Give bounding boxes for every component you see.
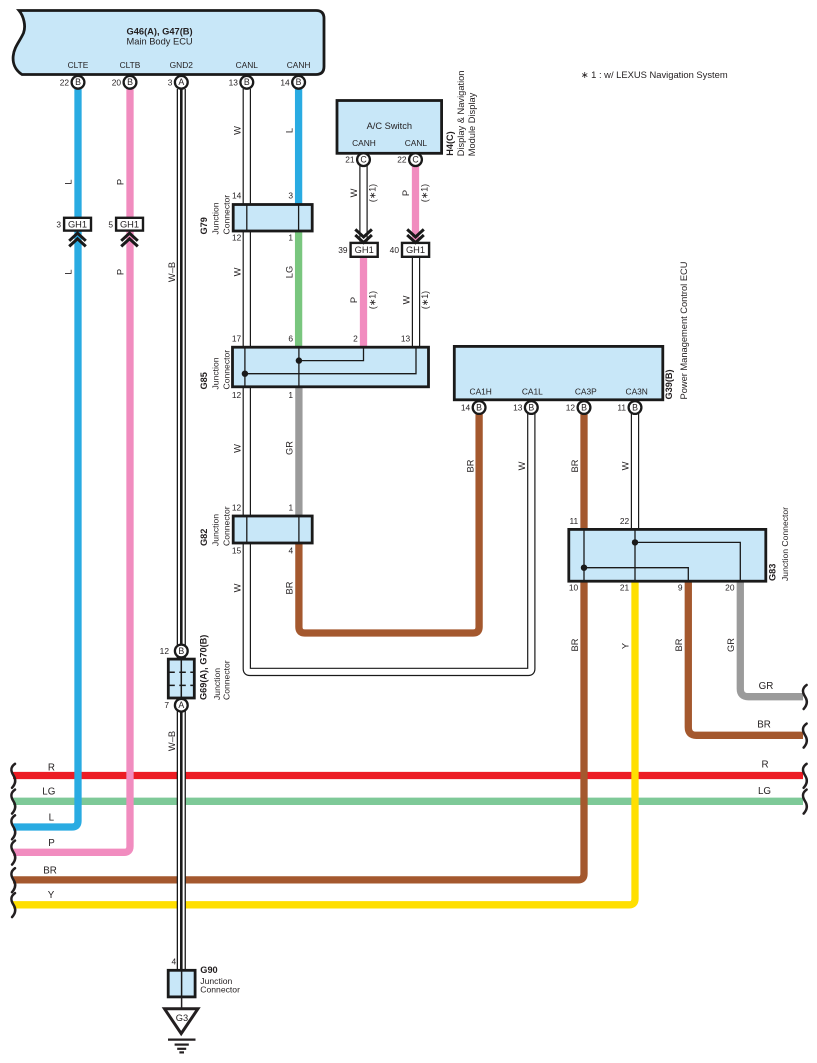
wire bus R (red) [13,772,803,779]
pin 21 C of A/C Switch (CANH) [357,153,370,166]
junction connector G85 box [233,347,429,387]
svg-text:LG: LG [42,787,55,798]
svg-text:CA3N: CA3N [626,387,648,397]
svg-text:BR: BR [757,720,771,731]
svg-text:G85: G85 [199,372,209,389]
svg-text:Connector: Connector [221,195,231,235]
svg-text:6: 6 [288,334,293,344]
svg-text:(∗1): (∗1) [367,184,377,202]
svg-text:BR: BR [570,638,580,651]
svg-text:Y: Y [48,890,55,901]
arrow down into 39 GH1 [355,229,372,242]
svg-text:(∗1): (∗1) [419,184,429,202]
svg-text:GR: GR [726,638,736,652]
pin 12 B of G69/G70 [175,645,188,658]
break symbol left Y bus [11,893,15,917]
svg-text:A: A [178,77,184,87]
arrow down into 40 GH1 [407,229,424,242]
svg-text:GR: GR [759,681,774,692]
svg-text:11: 11 [569,516,578,526]
svg-text:GH1: GH1 [120,219,139,229]
break symbol left R bus [11,764,15,788]
svg-text:7: 7 [164,700,169,710]
svg-text:21: 21 [620,583,630,593]
svg-text:BR: BR [570,459,580,472]
break symbol right GR wire [803,685,807,709]
svg-text:1: 1 [288,233,293,243]
svg-text:C: C [360,155,367,165]
pin 22 B of Main Body ECU (CLTE) [72,76,85,89]
svg-text:W: W [233,267,243,276]
wire GR from G85 pin 1 to G82 pin 1 [295,387,302,516]
G85 internal link pin6-pin1 [298,347,300,387]
wire Y from G83 pin 21 to bus at left edge [13,581,635,905]
svg-text:W–B: W–B [167,731,177,751]
break symbol left LG bus [11,790,15,814]
svg-text:CANH: CANH [287,60,311,70]
svg-text:P: P [401,190,411,196]
svg-text:(∗1): (∗1) [420,291,430,309]
svg-text:5: 5 [108,219,113,229]
svg-text:R: R [761,760,768,771]
svg-text:W: W [233,583,243,592]
svg-text:2: 2 [353,334,358,344]
svg-text:17: 17 [232,334,242,344]
pin 13 B of G39 (CA1L) [525,401,538,414]
node dot G83 pin22 column [632,539,638,545]
junction connector G69(A),G70(B) box [168,659,194,698]
svg-text:G82: G82 [199,529,209,546]
svg-text:Junction: Junction [211,202,221,234]
svg-text:P: P [116,179,126,185]
pin 7 A of G69/G70 [175,699,188,712]
break symbol left BR bus [11,868,15,892]
wire L from 3 GH1 to bus at left edge [13,231,78,828]
svg-text:P: P [48,838,55,849]
G69/G70 internal divider vertical [180,659,182,698]
svg-text:Main Body ECU: Main Body ECU [127,37,193,47]
wire BR from G83 pin 10 to bus at left edge [13,581,584,880]
svg-text:22: 22 [620,516,630,526]
G79 internal link pin14-pin12 [246,205,248,232]
svg-text:P: P [349,297,359,303]
svg-text:CA1H: CA1H [470,387,492,397]
wire P from 5 GH1 to bus at left edge [13,231,130,853]
svg-text:B: B [632,402,638,412]
ground earth hatch lines [168,1038,196,1040]
svg-text:1: 1 [288,390,293,400]
svg-text:15: 15 [232,546,242,556]
svg-text:Power Management Control ECU: Power Management Control ECU [679,262,689,400]
svg-text:W–B: W–B [167,262,177,282]
G85 internal link pin13 to node [245,347,416,374]
svg-text:Junction Connector: Junction Connector [780,507,790,581]
svg-text:4: 4 [172,957,177,967]
svg-text:3: 3 [168,77,173,87]
G82 internal link pin12-pin15 [246,516,248,543]
ECU U2 A/C Switch H4(C) box [337,101,442,154]
wire P from A/C Switch CANL pin 22 to arrow above 40 GH1 [412,166,419,242]
svg-text:W: W [517,461,527,470]
svg-text:B: B [528,402,534,412]
svg-text:CANL: CANL [405,138,428,148]
svg-text:13: 13 [229,77,239,87]
svg-text:21: 21 [345,155,355,165]
junction connector G82 box [233,516,312,543]
wire BR from CA3P pin 12 to G83 pin 11 [580,414,587,529]
svg-text:12: 12 [232,233,242,243]
G90 internal divider [181,970,183,997]
svg-text:39: 39 [338,245,348,255]
svg-text:Y: Y [620,643,630,649]
pin 14 B of Main Body ECU (CANH) [292,76,305,89]
svg-text:BR: BR [43,865,57,876]
svg-text:P: P [116,269,126,275]
svg-text:GH1: GH1 [355,245,374,255]
svg-text:A/C Switch: A/C Switch [367,121,412,131]
svg-text:LG: LG [284,266,294,278]
wire P from CLTB pin 20 to connector 5 GH1 [126,89,133,218]
svg-text:12: 12 [232,390,242,400]
svg-text:R: R [48,762,55,773]
svg-text:G69(A), G70(B): G69(A), G70(B) [199,635,209,700]
pin 14 B of G39 (CA1H) [473,401,486,414]
ECU U3 Power Management Control ECU G39(B) box [454,346,663,399]
junction connector G90 box [168,970,195,997]
node dot G83 pin11 column [581,565,587,571]
wire W-B from GND2 pin 3 to G90 junction connector [177,89,186,970]
break symbol left P wire [11,841,15,865]
G82 internal link pin1-pin4 [298,516,300,543]
svg-text:12: 12 [160,646,170,656]
svg-text:G83: G83 [767,564,777,581]
svg-text:H4(C): H4(C) [445,131,455,156]
G79 internal link pin3-pin1 [298,205,300,232]
svg-text:BR: BR [674,638,684,651]
svg-text:L: L [49,812,55,823]
svg-text:22: 22 [60,77,70,87]
svg-text:B: B [296,77,302,87]
svg-text:Module Display: Module Display [467,92,477,156]
wire W from 40 GH1 to G85 pin 13 [412,257,420,347]
svg-text:B: B [127,77,133,87]
svg-text:W: W [402,295,412,304]
svg-text:Connector: Connector [221,350,231,390]
pin 13 B of Main Body ECU (CANL) [240,76,253,89]
junction connector G79 box [233,205,312,232]
svg-text:A: A [178,700,184,710]
wire LG from G79 pin 1 to G85 pin 6 [295,231,302,347]
pin 12 B of G39 (CA3P) [578,401,591,414]
connector 3 GH1 box [64,218,91,231]
svg-text:BR: BR [285,581,295,594]
svg-text:11: 11 [617,403,626,413]
svg-text:9: 9 [678,583,683,593]
svg-text:L: L [284,128,294,133]
svg-text:W: W [233,444,243,453]
svg-text:G79: G79 [199,217,209,234]
svg-text:14: 14 [280,77,290,87]
svg-text:B: B [75,77,81,87]
svg-text:B: B [581,402,587,412]
svg-text:Display & Navigation: Display & Navigation [456,71,466,157]
svg-text:W: W [621,461,631,470]
svg-text:14: 14 [232,191,242,201]
wire L from CLTE pin 22 to connector 3 GH1 [74,89,81,218]
svg-text:CANL: CANL [236,60,259,70]
node dot G85 pin17 column [242,371,248,377]
G69/G70 internal dashed row line 1 [168,671,194,673]
svg-text:W: W [233,126,243,135]
break symbol right LG bus [803,790,807,814]
svg-text:3: 3 [56,219,61,229]
svg-text:10: 10 [569,583,579,593]
G83 internal link pin22-pin21 [634,529,636,581]
svg-text:C: C [412,155,419,165]
svg-text:L: L [64,179,74,184]
svg-text:13: 13 [401,334,411,344]
svg-text:W: W [349,188,359,197]
svg-text:B: B [476,402,482,412]
svg-text:G39(B): G39(B) [664,369,674,399]
pin 11 B of G39 (CA3N) [629,401,642,414]
break symbol right R bus [803,764,807,788]
svg-text:4: 4 [289,546,294,556]
G69/G70 internal dashed row line 2 [168,684,194,686]
svg-text:B: B [178,646,184,656]
connector 5 GH1 box [116,218,143,231]
svg-text:GND2: GND2 [170,60,194,70]
svg-text:13: 13 [513,403,523,413]
svg-text:22: 22 [397,155,407,165]
node dot G85 pin6 column [296,357,302,363]
arrow up into 5 GH1 [121,233,138,246]
G85 internal link pin17-pin12 [244,347,246,387]
arrow up into 3 GH1 [69,233,86,246]
ECU U1 Main Body ECU G46(A),G47(B) box [13,11,324,75]
svg-text:GH1: GH1 [406,245,425,255]
svg-text:G46(A), G47(B): G46(A), G47(B) [127,27,193,37]
wire from G90 to ground triangle [181,997,183,1008]
wire L CANH from pin 14 to G79 pin 3 [295,89,302,205]
connector 40 GH1 box [402,243,429,257]
svg-text:Junction: Junction [211,514,221,546]
svg-text:1: 1 [289,503,294,513]
break symbol left L wire [11,815,15,839]
G85 internal link pin2 to node [299,347,364,360]
G83 internal link pin11-pin10 [583,529,585,581]
svg-text:CA3P: CA3P [575,387,597,397]
svg-text:GH1: GH1 [68,219,87,229]
wire W from A/C Switch CANH pin 21 to arrow above 39 GH1 [359,166,367,242]
svg-text:(∗1): (∗1) [367,291,377,309]
svg-text:12: 12 [232,503,242,513]
svg-text:40: 40 [390,245,400,255]
wire BR from G83 pin 9 to right edge [688,581,803,735]
svg-text:LG: LG [758,786,771,797]
svg-text:Connector: Connector [200,985,240,995]
svg-text:CLTB: CLTB [120,60,141,70]
wire P from 39 GH1 to G85 pin 2 [360,257,367,347]
pin 22 C of A/C Switch (CANL) [409,153,422,166]
wire bus LG (light green) [13,798,803,805]
svg-text:12: 12 [566,403,576,413]
wire W from CA3N pin 11 to G83 pin 22 [631,414,639,529]
wire W CANL from pin 13 through G79/G85/G82 then right and up to CA1L [247,89,532,672]
svg-text:∗ 1 : w/ LEXUS Navigation Syst: ∗ 1 : w/ LEXUS Navigation System [581,69,728,80]
svg-text:20: 20 [725,583,735,593]
svg-text:BR: BR [465,459,475,472]
svg-text:Connector: Connector [221,506,231,546]
svg-text:GR: GR [285,441,295,455]
svg-text:G3: G3 [176,1013,188,1023]
svg-text:20: 20 [112,77,122,87]
svg-text:B: B [244,77,250,87]
break symbol right BR wire [803,724,807,748]
pin 3 A of Main Body ECU (GND2) [175,76,188,89]
G83 internal link node to pin20 [635,542,740,581]
G83 internal link node to pin9 [584,568,688,582]
ground G3 triangle [165,1009,198,1034]
connector 39 GH1 box [351,243,378,257]
wire GR from G83 pin 20 to right edge [740,581,803,697]
svg-text:Junction: Junction [211,357,221,389]
wire BR from G82 pin 4 right and up to CA1H pin 14 [299,414,479,633]
svg-text:G90: G90 [200,965,217,975]
svg-text:L: L [64,269,74,274]
svg-text:3: 3 [288,191,293,201]
pin 20 B of Main Body ECU (CLTB) [124,76,137,89]
svg-text:14: 14 [461,403,471,413]
svg-text:CA1L: CA1L [522,387,543,397]
svg-text:CLTE: CLTE [68,60,89,70]
svg-text:Connector: Connector [221,660,231,700]
svg-text:CANH: CANH [352,138,376,148]
junction connector G83 box [569,529,766,581]
